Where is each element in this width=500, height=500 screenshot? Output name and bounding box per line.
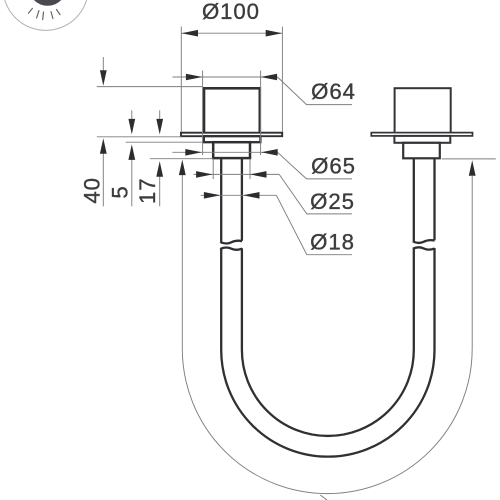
svg-text:Ø65: Ø65 bbox=[311, 154, 356, 179]
svg-text:Ø25: Ø25 bbox=[310, 189, 355, 214]
svg-text:5: 5 bbox=[107, 185, 132, 198]
svg-text:Ø100: Ø100 bbox=[202, 0, 260, 24]
svg-text:Ø64: Ø64 bbox=[311, 79, 356, 104]
svg-text:17: 17 bbox=[135, 178, 160, 204]
svg-text:Ø18: Ø18 bbox=[310, 229, 355, 254]
svg-text:40: 40 bbox=[80, 177, 105, 203]
